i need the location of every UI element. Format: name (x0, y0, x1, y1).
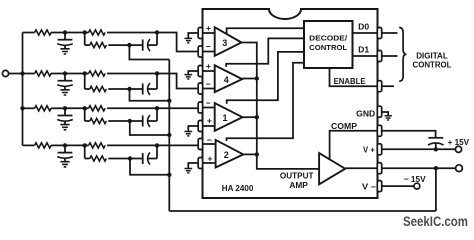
wire ch4 sub-row segment B (108, 158, 130, 160)
wire amp1 + input ground stub (188, 126, 198, 131)
resistor R12 (ch4 feedback branch) (90, 156, 107, 161)
wire row4 segment A (23, 144, 35, 146)
resistor R4 (ch2 input) (35, 71, 52, 76)
wire row1 segment D (85, 32, 89, 34)
wire COMP internal (330, 131, 378, 159)
svg-text:ENABLE: ENABLE (334, 77, 366, 86)
node ch4 split node (83, 143, 87, 147)
pin ENABLE (377, 81, 381, 92)
capacitor C9 (compensation, COMP to V+) (428, 137, 443, 139)
wire ch3 sub-row segment B (108, 120, 130, 122)
input bus wire (vertical) (22, 33, 24, 146)
pin amp1 + input pin (198, 121, 202, 132)
wire row4 segment C (65, 144, 85, 146)
pin OUT (377, 163, 381, 174)
wire row2 segment A (23, 73, 35, 75)
pin amp1 - input pin (198, 102, 202, 113)
wire row1 segment C (65, 32, 85, 34)
wire ch1 sub-row segment B (108, 44, 129, 46)
wire ch1 summing to amp3 minus pin (157, 33, 198, 52)
wire row3 segment C (65, 107, 85, 109)
node ch4 shunt-cap node (63, 143, 67, 147)
svg-text:+: + (206, 61, 211, 71)
pin V- (377, 181, 381, 192)
wire row2 segment E (107, 73, 157, 75)
wire ch3 feedback stub (130, 121, 170, 135)
node feedback/ch4 junction (167, 173, 171, 177)
wire ch1 sub-row segment C (129, 44, 142, 46)
op-amp A4 (215, 65, 243, 92)
svg-text:4: 4 (224, 75, 229, 85)
wire ch3 summing to amp1 minus pin (157, 107, 198, 109)
capacitor C5 (ch3 shunt to ground) (64, 108, 66, 115)
ground (amp4 + input) (184, 75, 192, 79)
wire row4 segment D (85, 144, 89, 146)
wire amp4 + input ground stub (188, 71, 198, 74)
op-amp A2 (216, 140, 244, 168)
wire decode to amp2 control (227, 63, 305, 141)
wire ch2 sub-row segment C (130, 88, 143, 90)
wire row3 segment A (23, 107, 35, 109)
ground (GND pin) (385, 116, 392, 120)
wire COMP external (382, 131, 436, 137)
input terminal (signal input node) (2, 70, 8, 76)
node ch1 split node (83, 30, 87, 34)
node ch2 split node (83, 71, 87, 75)
pin GND (377, 106, 381, 117)
wire ch3 drop to sub-row (84, 108, 86, 121)
wire D0 external (382, 32, 398, 34)
pin COMP (377, 125, 381, 136)
node ch3 shunt-cap node (63, 106, 67, 110)
block DECODE/CONTROL (304, 21, 353, 68)
node ch2 shunt-cap node (63, 71, 67, 75)
node ch3 summing node (155, 106, 159, 110)
wire OUT external (382, 167, 456, 169)
wire ch2 feedback stub (130, 89, 170, 101)
pin V+ (377, 144, 381, 155)
node ch4 summing node (155, 143, 159, 147)
capacitor C3 (ch2 shunt to ground) (64, 74, 66, 81)
resistor R6 (ch2 feedback branch) (90, 86, 107, 91)
capacitor C2 (ch1 feedback) (142, 40, 144, 51)
wire ch1 riser to summing node (156, 33, 158, 46)
svg-text:V +: V + (363, 145, 375, 154)
capacitor C8 (ch4 feedback) (142, 153, 144, 164)
wire amp2 + pin to triangle (203, 162, 215, 164)
wire ch4 sub-row segment D (148, 158, 157, 160)
wire row1 segment A (23, 32, 35, 34)
wire amp4 output (242, 78, 257, 80)
op-amp A3 (215, 27, 242, 56)
op-amp IC package outline (HA 2400) (203, 9, 378, 198)
wire ch4 sub-row segment A (85, 158, 90, 160)
pin amp3 + input pin (198, 28, 202, 39)
wire feedback bus (vertical left) (168, 60, 170, 212)
node ch3 feedback junction (128, 119, 132, 123)
svg-text:+: + (206, 23, 211, 33)
svg-text:+: + (207, 116, 212, 126)
wire amp1 - pin to triangle (203, 107, 215, 109)
svg-text:DIGITAL: DIGITAL (416, 51, 448, 60)
svg-text:−: − (206, 79, 211, 89)
svg-text:SeekIC.com: SeekIC.com (403, 214, 468, 229)
wire ch2 sub-row segment B (108, 88, 129, 90)
wire decode to amp1 control (227, 52, 304, 104)
wire decode to amp3 control (227, 28, 304, 34)
wire amp4 + pin to triangle (203, 70, 215, 72)
wire ch4 drop to sub-row (84, 145, 86, 158)
wire ch4 riser to summing node (156, 145, 158, 158)
svg-text:V −: V − (362, 182, 376, 191)
wire ch1 drop to sub-row (84, 33, 86, 46)
wire ch1 sub-row segment A (85, 44, 90, 46)
wire amp1 output (242, 116, 256, 118)
wire row2 segment C (65, 73, 85, 75)
resistor R10 (ch4 input) (35, 143, 52, 148)
wire amp3 output (242, 43, 320, 169)
pin D1 (377, 51, 381, 62)
svg-text:GND: GND (356, 110, 375, 119)
terminal output (456, 165, 463, 172)
svg-text:D0: D0 (358, 22, 370, 31)
node feedback/ch2 junction (167, 99, 171, 103)
wire output amp to OUT pin (345, 167, 377, 169)
node: bus/row3 junction (20, 106, 24, 110)
op-amp A1 (215, 103, 243, 131)
wire ch4 feedback stub (130, 159, 169, 175)
node: bus/row2 junction (20, 71, 24, 75)
pin amp2 - input pin (198, 139, 202, 150)
wire decode to D0 pin (353, 32, 378, 34)
pin amp4 - input pin (198, 83, 202, 94)
wire amp4 - pin to triangle (203, 88, 215, 90)
wire feedback bus (bottom) (169, 210, 436, 212)
node ch1 summing node (155, 30, 159, 34)
resistor R3 (ch1 feedback branch) (90, 43, 107, 48)
wire row2 segment B (51, 73, 65, 75)
wire D1 external (382, 55, 398, 57)
wire amp2 output (243, 153, 256, 155)
pin D0 (377, 28, 381, 39)
wire amp3 - pin to triangle (203, 51, 215, 53)
capacitor C7 (ch4 shunt to ground) (64, 145, 66, 152)
resistor R1 (ch1 input) (35, 30, 52, 35)
node ch1 feedback junction (127, 43, 131, 47)
resistor R11 (ch4 series, top branch) (89, 143, 106, 148)
wire decode to ENABLE pin (330, 68, 378, 86)
svg-text:−: − (206, 98, 211, 108)
wire row1 segment E (107, 32, 157, 34)
node ch3 split node (83, 106, 87, 110)
wire ENABLE external (382, 85, 394, 87)
svg-text:+ 15V: + 15V (448, 137, 470, 147)
wire row3 segment B (51, 107, 65, 109)
svg-text:D1: D1 (358, 46, 370, 55)
brace digital control (399, 27, 406, 81)
pin amp2 + input pin (198, 158, 202, 169)
wire decode to D1 pin (353, 55, 378, 57)
node amp2 output junction (255, 152, 259, 156)
wire ch4 summing to amp2 minus pin (157, 144, 198, 146)
wire ch1 feedback stub (129, 45, 169, 59)
node ch2 feedback junction (127, 87, 131, 91)
wire ch2 drop to sub-row (84, 74, 86, 90)
wire row3 segment E (107, 107, 157, 109)
wire ch2 summing to amp4 minus pin (157, 74, 198, 89)
wire row3 segment D (85, 107, 89, 109)
wire ch2 riser to summing node (156, 74, 158, 90)
svg-text:CONTROL: CONTROL (309, 43, 347, 52)
wire row1 segment B (51, 32, 65, 34)
resistor R9 (ch3 feedback branch) (90, 118, 107, 123)
wire ch3 sub-row segment A (85, 120, 90, 122)
svg-text:− 15V: − 15V (404, 174, 426, 184)
svg-text:2: 2 (224, 150, 229, 160)
ground (amp2 + input) (184, 169, 192, 173)
wire row4 segment B (51, 144, 65, 146)
wire row4 segment E (107, 144, 157, 146)
node feedback/ch3 junction (167, 133, 171, 137)
capacitor C1 (ch1 shunt to ground) (64, 33, 66, 40)
wire amp3 + pin to triangle (203, 32, 215, 34)
node ch1 shunt-cap node (63, 30, 67, 34)
svg-text:−: − (207, 135, 212, 145)
wire ch3 sub-row segment D (148, 120, 157, 122)
svg-text:HA 2400: HA 2400 (222, 183, 254, 193)
svg-text:OUTPUT: OUTPUT (280, 171, 314, 180)
resistor R5 (ch2 series, top branch) (89, 71, 106, 76)
svg-text:1: 1 (222, 113, 227, 123)
wire feedback bus (vertical right) (435, 168, 437, 211)
op-amp output amplifier (319, 153, 345, 184)
resistor R2 (ch1 series, top branch) (89, 30, 106, 35)
wire ch2 sub-row segment D (148, 88, 157, 90)
capacitor C4 (ch2 feedback) (142, 83, 144, 94)
svg-text:+: + (208, 153, 213, 163)
pin amp3 - input pin (198, 46, 202, 57)
terminal -15V (414, 183, 420, 189)
resistor R8 (ch3 series, top branch) (89, 106, 106, 111)
wire V- to -15V terminal (382, 185, 414, 187)
wire ch3 riser to summing node (156, 108, 158, 121)
terminal +15V (455, 146, 461, 152)
wire amp3 + input ground stub (188, 33, 198, 38)
wire decode to amp4 control (226, 38, 304, 66)
wire ch4 sub-row segment C (130, 158, 143, 160)
svg-text:3: 3 (222, 38, 227, 48)
node amp1 output junction (255, 115, 259, 119)
wire ch2 sub-row segment A (85, 88, 90, 90)
svg-text:CONTROL: CONTROL (413, 61, 452, 70)
node ch4 feedback junction (128, 156, 132, 160)
wire ch3 sub-row segment C (130, 120, 143, 122)
node ch2 summing node (155, 71, 159, 75)
resistor R7 (ch3 input) (35, 106, 52, 111)
node amp4 output junction (255, 76, 259, 80)
svg-text:DECODE/: DECODE/ (309, 33, 348, 42)
wire ch1 sub-row segment D (148, 44, 157, 46)
wire GND pin to ground (382, 112, 389, 116)
svg-text:−: − (206, 42, 211, 52)
wire amp1 + pin to triangle (203, 125, 215, 127)
node V+/comp-cap junction (434, 147, 438, 151)
wire amp2 + input ground stub (188, 163, 198, 168)
wire amp2 - pin to triangle (203, 143, 215, 145)
wire row2 segment D (85, 73, 89, 75)
svg-text:COMP: COMP (331, 122, 358, 131)
pin amp4 + input pin (198, 66, 202, 77)
svg-text:AMP: AMP (289, 181, 308, 190)
node output/feedback junction (434, 166, 438, 170)
ground (amp3 + input) (184, 38, 192, 42)
capacitor C6 (ch3 feedback) (142, 115, 144, 126)
ground (amp1 + input) (184, 132, 192, 136)
wire V+ to +15V terminal (382, 148, 456, 150)
